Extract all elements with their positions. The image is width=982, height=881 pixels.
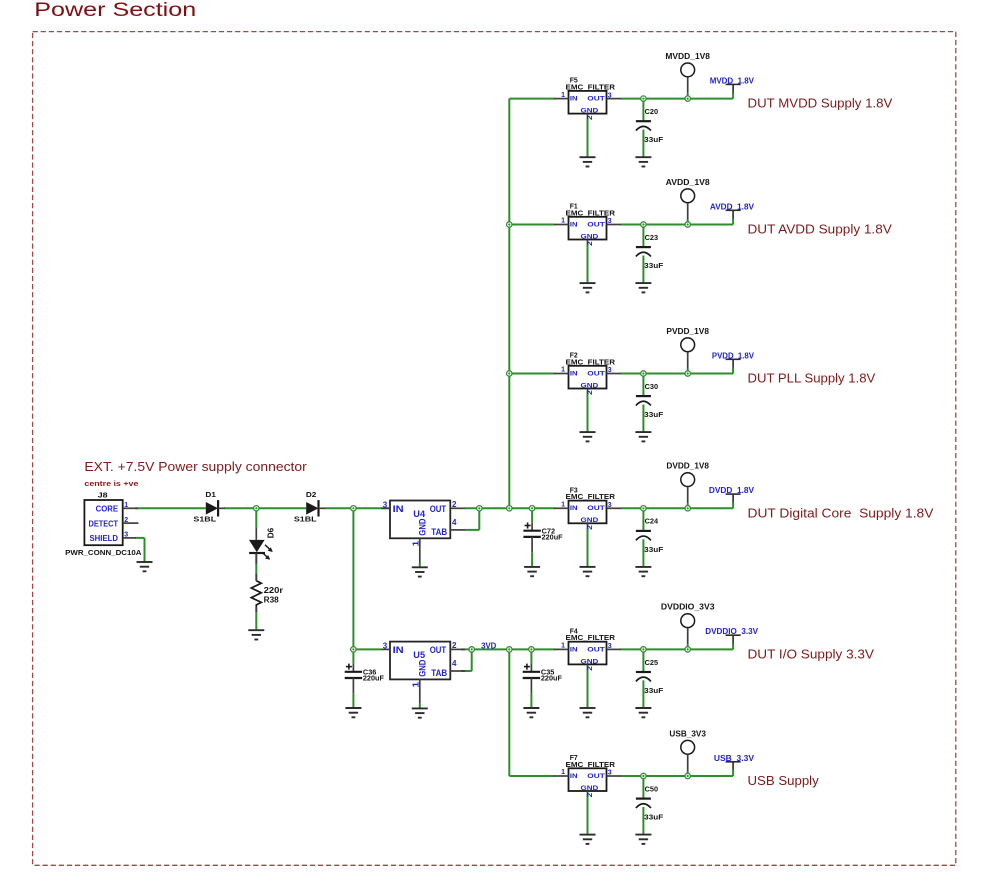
svg-text:3: 3 [608,367,612,374]
svg-text:1: 1 [561,643,565,650]
svg-text:AVDD_1V8: AVDD_1V8 [666,178,711,187]
svg-text:DVDD_1V8: DVDD_1V8 [666,462,709,471]
svg-text:OUT: OUT [587,646,605,653]
svg-text:OUT: OUT [587,505,605,512]
svg-text:OUT: OUT [587,773,605,780]
svg-text:1: 1 [124,502,128,509]
svg-text:OUT: OUT [587,221,605,228]
svg-text:2: 2 [587,525,594,530]
svg-text:MVDD_1V8: MVDD_1V8 [665,52,710,61]
svg-text:OUT: OUT [587,96,605,103]
svg-text:2: 2 [587,793,594,798]
svg-text:S1BL: S1BL [294,517,318,524]
svg-text:IN: IN [570,221,578,228]
svg-text:3: 3 [608,770,612,777]
svg-text:DUT PLL Supply 1.8V: DUT PLL Supply 1.8V [748,371,876,386]
svg-text:3: 3 [608,643,612,650]
svg-text:1: 1 [561,92,565,99]
svg-text:TAB: TAB [431,527,447,538]
svg-text:U4: U4 [413,509,425,520]
svg-text:220r: 220r [264,586,283,595]
svg-text:GND: GND [581,785,599,792]
svg-text:DUT I/O Supply 3.3V: DUT I/O Supply 3.3V [748,646,875,661]
svg-text:GND: GND [417,518,428,535]
svg-text:D1: D1 [205,492,216,499]
svg-text:C24: C24 [645,519,659,526]
svg-text:C23: C23 [645,235,659,242]
svg-text:C25: C25 [645,660,659,667]
svg-text:C30: C30 [645,384,659,391]
svg-text:1: 1 [412,681,421,688]
svg-text:2: 2 [587,666,594,671]
svg-text:USB Supply: USB Supply [748,773,820,788]
svg-text:33uF: 33uF [644,688,664,695]
svg-text:IN: IN [393,645,404,656]
svg-text:CORE: CORE [96,504,119,514]
svg-text:PWR_CONN_DC10A: PWR_CONN_DC10A [65,550,141,557]
svg-text:33uF: 33uF [644,137,664,144]
svg-text:4: 4 [452,518,457,527]
svg-text:GND: GND [581,517,599,524]
svg-text:Power Section: Power Section [34,0,196,21]
svg-text:220uF: 220uF [541,676,563,683]
svg-text:2: 2 [587,390,594,395]
svg-text:U5: U5 [413,650,425,661]
svg-text:220uF: 220uF [363,676,385,683]
svg-text:IN: IN [393,504,404,515]
svg-text:3: 3 [608,92,612,99]
svg-text:2: 2 [124,517,128,524]
svg-text:1: 1 [561,769,565,776]
svg-text:4: 4 [452,659,457,668]
svg-text:1: 1 [561,218,565,225]
svg-text:centre is +ve: centre is +ve [84,481,138,488]
svg-text:SHIELD: SHIELD [90,533,119,543]
svg-text:33uF: 33uF [644,412,664,419]
svg-text:3: 3 [608,218,612,225]
svg-text:GND: GND [581,108,599,115]
svg-text:GND: GND [581,658,599,665]
svg-text:C20: C20 [645,109,659,116]
svg-text:J8: J8 [98,492,108,499]
svg-text:IN: IN [570,773,578,780]
svg-text:PVDD_1V8: PVDD_1V8 [666,327,709,336]
svg-text:R38: R38 [264,596,280,605]
svg-text:USB_3V3: USB_3V3 [669,729,706,738]
svg-text:3: 3 [608,502,612,509]
svg-text:DVDDIO_3V3: DVDDIO_3V3 [661,603,715,612]
svg-text:OUT: OUT [430,504,447,515]
svg-text:GND: GND [417,659,428,676]
svg-text:GND: GND [581,233,599,240]
svg-text:DUT MVDD Supply 1.8V: DUT MVDD Supply 1.8V [748,96,893,111]
svg-text:1: 1 [561,367,565,374]
svg-text:33uF: 33uF [644,815,664,822]
svg-text:3: 3 [383,500,388,509]
svg-text:3VD: 3VD [481,641,496,650]
svg-text:IN: IN [570,96,578,103]
svg-text:S1BL: S1BL [193,517,217,524]
svg-text:OUT: OUT [430,645,447,656]
svg-text:IN: IN [570,505,578,512]
svg-text:3: 3 [383,642,388,651]
svg-text:DUT Digital Core Supply 1.8V: DUT Digital Core Supply 1.8V [748,505,934,520]
svg-text:33uF: 33uF [644,547,664,554]
svg-text:GND: GND [581,382,599,389]
svg-text:EXT. +7.5V Power supply connec: EXT. +7.5V Power supply connector [84,460,306,474]
svg-text:DUT AVDD Supply 1.8V: DUT AVDD Supply 1.8V [748,222,893,237]
svg-text:1: 1 [412,540,421,547]
svg-text:C50: C50 [645,786,659,793]
svg-text:D6: D6 [267,527,276,538]
svg-text:D2: D2 [306,492,317,499]
svg-text:DETECT: DETECT [89,518,119,528]
svg-text:IN: IN [570,370,578,377]
svg-text:220uF: 220uF [542,535,564,542]
svg-text:IN: IN [570,646,578,653]
svg-text:1: 1 [561,502,565,509]
svg-text:OUT: OUT [587,370,605,377]
svg-text:33uF: 33uF [644,263,664,270]
svg-text:3: 3 [124,532,128,539]
svg-text:2: 2 [587,115,594,120]
svg-text:2: 2 [587,241,594,246]
svg-text:TAB: TAB [431,668,447,679]
